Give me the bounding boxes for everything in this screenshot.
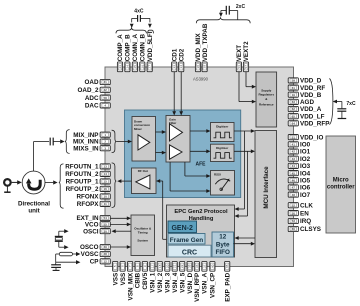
pin IO0 (right edge) xyxy=(288,142,298,147)
pin RFOUTP_1 (left edge) xyxy=(100,179,110,184)
svg-text:COMP_A: COMP_A xyxy=(117,34,124,61)
svg-text:VDD_TXPAB: VDD_TXPAB xyxy=(202,23,209,61)
svg-text:42: 42 xyxy=(292,150,296,154)
block RF Out xyxy=(132,168,157,194)
pin VEXT (top edge) xyxy=(236,62,241,72)
svg-text:IO3: IO3 xyxy=(300,163,311,170)
svg-text:CBV5: CBV5 xyxy=(142,272,149,289)
svg-text:40: 40 xyxy=(210,264,214,268)
svg-text:VSN_D: VSN_D xyxy=(187,272,194,293)
svg-text:Byte: Byte xyxy=(216,241,230,248)
svg-text:Frame Gen: Frame Gen xyxy=(170,237,203,244)
svg-text:VDD_LF: VDD_LF xyxy=(300,113,325,120)
svg-text:45: 45 xyxy=(292,171,296,175)
pin COMP_A (top edge) xyxy=(117,62,122,72)
svg-text:VSN_A: VSN_A xyxy=(202,272,209,293)
svg-text:57: 57 xyxy=(244,65,248,69)
pin CD1 (top edge) xyxy=(172,62,177,72)
wire capacitor to ground xyxy=(55,267,57,270)
capacitor 7xC xyxy=(337,108,346,110)
pin VSN_5 (bottom edge) xyxy=(180,261,185,271)
block down-conversion mixer xyxy=(132,117,156,162)
svg-text:16: 16 xyxy=(104,187,108,191)
RF out amplifier triangle (points left) xyxy=(136,175,150,189)
svg-text:VSN_2: VSN_2 xyxy=(157,272,164,292)
pin IO7 (right edge) xyxy=(288,192,298,197)
svg-text:4xC: 4xC xyxy=(134,9,144,15)
svg-text:CD2: CD2 xyxy=(178,48,185,61)
pin VSN_RFP (bottom edge) xyxy=(194,261,199,271)
svg-text:VSN_1: VSN_1 xyxy=(150,272,157,292)
svg-text:IO6: IO6 xyxy=(300,185,311,192)
svg-text:VSS: VSS xyxy=(120,273,127,286)
capacitor in MIX path xyxy=(49,138,51,146)
wire MCU to FIFO xyxy=(238,237,255,239)
wire directional unit to RFOUT brace xyxy=(45,182,53,184)
svg-text:53: 53 xyxy=(292,219,296,223)
svg-text:7xC: 7xC xyxy=(346,101,356,107)
svg-text:RFOUTN_2: RFOUTN_2 xyxy=(65,171,99,178)
wire capacitor to MIX brace xyxy=(53,141,60,143)
svg-text:Mixer: Mixer xyxy=(134,127,143,131)
svg-text:29: 29 xyxy=(104,245,108,249)
pin MIX_INP (left edge) xyxy=(100,132,110,137)
svg-text:CLSYS: CLSYS xyxy=(300,226,321,233)
svg-text:CD1: CD1 xyxy=(171,48,178,61)
svg-text:RSSI: RSSI xyxy=(214,173,221,177)
pin VEXT2 (top edge) xyxy=(243,62,248,72)
svg-text:Timing: Timing xyxy=(138,230,148,234)
wire bracket to capacitor 7xC xyxy=(333,100,337,104)
svg-text:VSN_4: VSN_4 xyxy=(172,272,179,292)
svg-text:CLK: CLK xyxy=(300,202,313,209)
svg-text:AFE: AFE xyxy=(196,162,207,168)
pin VCO (left edge) xyxy=(100,222,110,227)
svg-text:controller: controller xyxy=(327,185,355,191)
svg-text:65: 65 xyxy=(225,264,229,268)
svg-text:EXP_PAD: EXP_PAD xyxy=(224,272,231,301)
pin RFONX (left edge) xyxy=(100,194,110,199)
wire frame gen to RF out xyxy=(163,238,167,240)
svg-text:39: 39 xyxy=(203,65,207,69)
pin VSN_D (bottom edge) xyxy=(187,261,192,271)
capacitor 2xC xyxy=(225,6,227,15)
svg-text:VDD_5LFI: VDD_5LFI xyxy=(147,31,154,61)
svg-text:32: 32 xyxy=(104,88,108,92)
gain filter amplifier triangle 2 xyxy=(170,145,183,159)
wire RF out to RFOUT pins xyxy=(121,180,131,182)
svg-text:19: 19 xyxy=(292,93,296,97)
wire crystal to OSCI xyxy=(58,231,60,236)
svg-text:18: 18 xyxy=(158,264,162,268)
svg-text:41: 41 xyxy=(292,143,296,147)
svg-text:44: 44 xyxy=(292,164,296,168)
pin VSN_1 (bottom edge) xyxy=(150,261,155,271)
svg-text:unit: unit xyxy=(28,207,39,214)
svg-text:OSCI: OSCI xyxy=(83,228,99,235)
svg-text:61: 61 xyxy=(292,86,296,90)
svg-text:GEN-2: GEN-2 xyxy=(171,225,193,232)
AFE analog front-end region xyxy=(125,110,241,198)
pin COMP_B (top edge) xyxy=(125,62,130,72)
pin OSCO (left edge) xyxy=(100,244,110,249)
pin RFOUTP_2 (left edge) xyxy=(100,186,110,191)
wire 4xC left to arrow xyxy=(132,17,138,19)
svg-text:VDD_D: VDD_D xyxy=(300,78,322,85)
bracket right of VDD pin group xyxy=(329,79,333,125)
svg-text:12: 12 xyxy=(219,234,227,241)
pin VOSC (left edge) xyxy=(100,251,110,256)
block digitizer 2 xyxy=(211,144,235,161)
svg-text:30: 30 xyxy=(104,229,108,233)
wire mixer to gain filter 1 xyxy=(156,131,163,133)
wire to CP pin xyxy=(56,261,76,263)
svg-text:VDD_B: VDD_B xyxy=(300,92,322,99)
svg-text:52: 52 xyxy=(292,203,296,207)
svg-text:MIXS_IN: MIXS_IN xyxy=(73,145,99,152)
svg-text:COMP_B: COMP_B xyxy=(125,34,132,61)
svg-text:27: 27 xyxy=(148,65,152,69)
pin VDD_MIX (top edge) xyxy=(195,62,200,72)
svg-text:21: 21 xyxy=(173,264,177,268)
pin VSS (bottom edge) xyxy=(113,261,118,271)
crystal symbol xyxy=(55,235,63,237)
pin EXT_IN (left edge) xyxy=(100,215,110,220)
svg-text:VSN_CP: VSN_CP xyxy=(210,273,217,298)
svg-text:46: 46 xyxy=(292,178,296,182)
wire bead to VOSC pin xyxy=(73,253,77,255)
wire 2xC left arrow xyxy=(221,10,226,12)
pin IRQ (right edge) xyxy=(288,218,298,223)
svg-text:51: 51 xyxy=(292,135,296,139)
inner brace MIX pins xyxy=(112,130,117,152)
svg-text:43: 43 xyxy=(292,157,296,161)
svg-text:Regulators: Regulators xyxy=(258,93,274,97)
amplifier triangle in mixer xyxy=(138,135,150,150)
svg-text:EN: EN xyxy=(300,210,309,217)
pin VSN_CP (bottom edge) xyxy=(210,261,215,271)
antenna symbol xyxy=(4,179,11,186)
block Frame Gen xyxy=(168,234,205,245)
wire mixer to gain filter 2 xyxy=(156,152,163,154)
svg-text:56: 56 xyxy=(237,65,241,69)
bracket over VDD_5LFI pin xyxy=(148,30,154,33)
svg-text:Digitizer: Digitizer xyxy=(216,146,229,150)
pin OSCI (left edge) xyxy=(100,229,110,234)
svg-text:Reference: Reference xyxy=(259,103,274,107)
wire antenna to directional unit xyxy=(12,181,18,183)
svg-text:63: 63 xyxy=(292,100,296,104)
svg-text:MCU Interface: MCU Interface xyxy=(263,166,270,209)
chip body AS3990 xyxy=(105,67,294,267)
pin CP (left edge) xyxy=(100,259,110,264)
svg-text:VDD_A: VDD_A xyxy=(300,106,322,113)
svg-text:OAD_2: OAD_2 xyxy=(78,87,99,94)
wire directional unit to MIX path xyxy=(33,142,35,172)
svg-text:65: 65 xyxy=(292,114,296,118)
pin RFOUTN_2 (left edge) xyxy=(100,171,110,176)
wire VCO to oscillator xyxy=(110,223,127,225)
svg-text:12: 12 xyxy=(104,260,108,264)
svg-text:Micro: Micro xyxy=(333,178,349,184)
svg-text:VSN_RFP: VSN_RFP xyxy=(194,273,201,302)
wire MIX input to mixer xyxy=(116,141,128,143)
svg-text:CBIB: CBIB xyxy=(135,272,142,288)
svg-text:OSCO: OSCO xyxy=(80,244,99,251)
svg-text:VEXT: VEXT xyxy=(236,45,243,62)
svg-text:20: 20 xyxy=(165,264,169,268)
pin EN (right edge) xyxy=(288,211,298,216)
wire gain filter to digitizer 1 xyxy=(190,130,207,132)
svg-text:VSN_5: VSN_5 xyxy=(179,272,186,292)
pin IO5 (right edge) xyxy=(288,178,298,183)
svg-text:AS3990: AS3990 xyxy=(193,77,209,82)
block MCU Interface xyxy=(255,131,277,258)
svg-text:24: 24 xyxy=(125,65,129,69)
capacitor 4xC xyxy=(137,15,139,22)
ground 7xC xyxy=(338,118,347,120)
pin RFOPX (left edge) xyxy=(100,201,110,206)
svg-text:AGD: AGD xyxy=(300,99,314,106)
svg-text:RFOPX: RFOPX xyxy=(77,201,99,208)
pin IO6 (right edge) xyxy=(288,185,298,190)
svg-text:Directional: Directional xyxy=(18,200,50,207)
svg-text:48: 48 xyxy=(292,193,296,197)
svg-text:VEXT2: VEXT2 xyxy=(243,41,250,61)
wire VEXT to supply regulator xyxy=(238,72,240,102)
svg-text:23: 23 xyxy=(118,65,122,69)
svg-text:35: 35 xyxy=(188,264,192,268)
pin VDD_A (right edge) xyxy=(288,106,298,111)
capacitor at VOSC/CP node xyxy=(51,264,61,266)
pin VDD_D (right edge) xyxy=(288,78,298,83)
svg-text:31: 31 xyxy=(104,80,108,84)
wire bead left down xyxy=(56,253,60,255)
pin MIX_INN (left edge) xyxy=(100,139,110,144)
pin VSN_MIX (bottom edge) xyxy=(128,261,133,271)
pin VDD_5LFI (top edge) xyxy=(147,62,152,72)
svg-text:System: System xyxy=(137,239,148,243)
pin IO2 (right edge) xyxy=(288,156,298,161)
ferrite bead / resonator at VOSC xyxy=(59,252,72,256)
svg-text:IO2: IO2 xyxy=(300,156,311,163)
wire gain filter to RSSI input 1 xyxy=(184,162,186,176)
svg-text:62: 62 xyxy=(292,107,296,111)
pin CBV5 (bottom edge) xyxy=(142,261,147,271)
svg-text:VDD_RF: VDD_RF xyxy=(300,85,325,92)
svg-text:VSN_3: VSN_3 xyxy=(165,272,172,292)
svg-text:IO5: IO5 xyxy=(300,177,311,184)
svg-text:CP: CP xyxy=(90,259,99,266)
svg-text:FIFO: FIFO xyxy=(216,249,230,256)
wire oscillator to OSCI pin xyxy=(116,230,132,232)
block Micro controller xyxy=(326,136,356,233)
svg-text:54: 54 xyxy=(104,216,108,220)
wire gain filter to RSSI input 2 xyxy=(169,162,171,191)
svg-text:VSS: VSS xyxy=(112,273,119,286)
svg-text:RF Out: RF Out xyxy=(138,169,148,173)
svg-text:IO7: IO7 xyxy=(300,192,311,199)
wire CD1 to gain filter xyxy=(173,72,175,112)
pin DAC (left edge) xyxy=(100,103,110,108)
svg-text:34: 34 xyxy=(179,65,183,69)
svg-text:RFONX: RFONX xyxy=(76,194,99,201)
pin RFOUTN_1 (left edge) xyxy=(100,164,110,169)
gain filter amplifier triangle 1 xyxy=(170,124,183,141)
svg-text:RFOUTN_1: RFOUTN_1 xyxy=(65,164,99,171)
svg-text:COMN_A: COMN_A xyxy=(132,34,139,62)
svg-text:IO1: IO1 xyxy=(300,149,311,156)
svg-text:RFOUTP_2: RFOUTP_2 xyxy=(66,186,99,193)
svg-text:13: 13 xyxy=(104,165,108,169)
svg-text:OAD: OAD xyxy=(85,79,99,86)
pin OAD_2 (left edge) xyxy=(100,87,110,92)
svg-text:RFOUTP_1: RFOUTP_1 xyxy=(66,179,99,186)
svg-text:VSN_MIX: VSN_MIX xyxy=(127,272,134,300)
block Supply Regulators and Reference xyxy=(256,72,277,127)
svg-text:22: 22 xyxy=(180,264,184,268)
brace for RFOUTN/RFOUTP/RFONX/RFOPX pins xyxy=(59,164,64,208)
pin VDD_RFP (right edge) xyxy=(288,121,298,126)
svg-text:14: 14 xyxy=(104,172,108,176)
svg-text:36: 36 xyxy=(195,264,199,268)
block Oscillator and Timing System xyxy=(131,215,155,256)
svg-text:DAC: DAC xyxy=(85,103,99,110)
pin VSN_4 (bottom edge) xyxy=(172,261,177,271)
wire OSCO to oscillator xyxy=(110,246,127,248)
ground symbol xyxy=(53,269,60,271)
pin VDD_B (right edge) xyxy=(288,92,298,97)
pin CBIB (bottom edge) xyxy=(135,261,140,271)
svg-text:IO4: IO4 xyxy=(300,170,311,177)
block CRC xyxy=(168,245,211,257)
brace for MIX_INP MIX_INN MIXS_IN pins xyxy=(65,130,70,154)
svg-text:64: 64 xyxy=(292,122,296,126)
pin VDD_RF (right edge) xyxy=(288,85,298,90)
block gain filter xyxy=(166,116,190,163)
svg-text:47: 47 xyxy=(292,186,296,190)
wire EXT_IN to oscillator xyxy=(110,217,127,219)
svg-text:60: 60 xyxy=(292,227,296,231)
svg-text:55: 55 xyxy=(104,222,108,226)
svg-text:VDD_IO: VDD_IO xyxy=(300,134,324,141)
directional unit u-turn arrow icon xyxy=(29,180,41,189)
svg-text:CRC: CRC xyxy=(182,250,197,257)
wire digitizer 2 branch to EPC block xyxy=(247,151,249,216)
svg-text:58: 58 xyxy=(104,96,108,100)
square wave icon digitizer 1 xyxy=(214,132,232,138)
pin EXP_PAD (bottom edge) xyxy=(225,261,230,271)
block EPC Gen2 Protocol Handling xyxy=(167,205,235,257)
svg-text:26: 26 xyxy=(140,65,144,69)
inner brace RFOUT pins xyxy=(112,163,117,208)
svg-text:11: 11 xyxy=(104,202,108,206)
pin MIXS_IN (left edge) xyxy=(100,146,110,151)
block 12 Byte FIFO xyxy=(212,232,234,257)
svg-text:IO0: IO0 xyxy=(300,142,311,149)
wire 7xC to ground xyxy=(341,111,343,118)
directional unit circle xyxy=(22,171,45,194)
svg-text:ADC: ADC xyxy=(85,95,99,102)
pin AGD (right edge) xyxy=(288,99,298,104)
block digitizer 1 xyxy=(211,123,235,142)
pin CLSYS (right edge) xyxy=(288,226,298,231)
svg-text:38: 38 xyxy=(196,65,200,69)
block GEN-2 xyxy=(168,221,197,233)
wire 4xC right to arrow xyxy=(140,17,150,19)
svg-text:COMN_B: COMN_B xyxy=(140,34,147,62)
svg-text:2xC: 2xC xyxy=(236,4,246,10)
pin VDD_IO (right edge) xyxy=(288,135,298,140)
wire digitizer 1 to MCU interface xyxy=(234,130,251,132)
block RSSI xyxy=(211,171,235,196)
pin VDD_TXPAB (top edge) xyxy=(202,62,207,72)
pin VSN_A (bottom edge) xyxy=(202,261,207,271)
wire digitizer 1 branch to EPC block xyxy=(244,131,246,209)
brace over VDD_MIX..VEXT2 pins xyxy=(196,17,250,23)
svg-text:17: 17 xyxy=(150,264,154,268)
pin VSN_2 (bottom edge) xyxy=(157,261,162,271)
wire crystal to OSCO xyxy=(58,241,60,247)
svg-text:VDD_RFP: VDD_RFP xyxy=(300,121,329,128)
pin OAD (left edge) xyxy=(100,79,110,84)
wire FIFO to MCU xyxy=(234,243,252,245)
square wave icon digitizer 2 xyxy=(214,153,232,159)
wire CD2 to gain filter xyxy=(180,72,182,112)
brace over COMP_A..COMN_B pins xyxy=(116,27,146,33)
svg-text:25: 25 xyxy=(133,65,137,69)
svg-text:59: 59 xyxy=(292,79,296,83)
wire down to capacitor xyxy=(55,262,57,265)
pin ADC (left edge) xyxy=(100,95,110,100)
pin CD2 (top edge) xyxy=(179,62,184,72)
pin CLK (right edge) xyxy=(288,203,298,208)
wire digitizer 2 to MCU interface xyxy=(234,150,251,152)
pin IO4 (right edge) xyxy=(288,171,298,176)
pin IO1 (right edge) xyxy=(288,149,298,154)
svg-text:37: 37 xyxy=(202,264,206,268)
pin VSN_3 (bottom edge) xyxy=(165,261,170,271)
wire gain filter to digitizer 2 xyxy=(190,150,207,152)
svg-text:IRQ: IRQ xyxy=(300,218,311,225)
svg-text:EPC Gen2 Protocol: EPC Gen2 Protocol xyxy=(174,209,228,215)
RSSI gauge icon xyxy=(215,179,230,184)
svg-text:50: 50 xyxy=(292,211,296,215)
svg-text:Digitizer: Digitizer xyxy=(216,125,229,129)
pin COMN_B (top edge) xyxy=(140,62,145,72)
wire VEXT2 to supply regulator xyxy=(245,72,247,87)
svg-text:VOSC: VOSC xyxy=(81,251,99,258)
pin VDD_LF (right edge) xyxy=(288,114,298,119)
pin COMN_A (top edge) xyxy=(132,62,137,72)
pin IO3 (right edge) xyxy=(288,163,298,168)
svg-text:10: 10 xyxy=(104,195,108,199)
pin VSS (bottom edge) xyxy=(120,261,125,271)
svg-text:33: 33 xyxy=(172,65,176,69)
svg-text:28: 28 xyxy=(104,252,108,256)
wire 2xC right down xyxy=(229,10,238,12)
svg-text:15: 15 xyxy=(104,180,108,184)
